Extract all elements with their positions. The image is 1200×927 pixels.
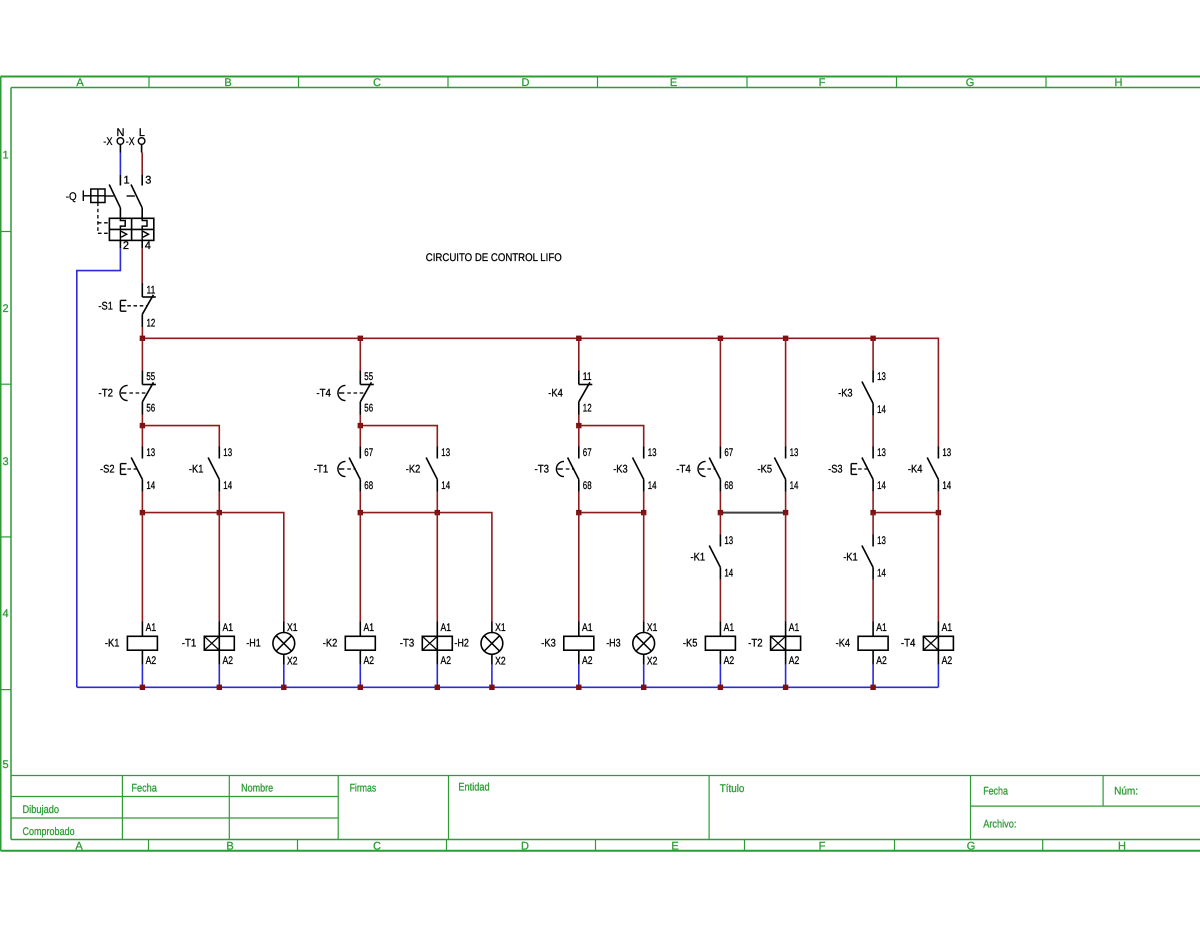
rail group4 (dark) [720, 512, 785, 514]
svg-text:-Q: -Q [66, 191, 77, 203]
svg-text:X2: X2 [647, 656, 658, 668]
svg-text:56: 56 [146, 403, 155, 415]
svg-text:A2: A2 [942, 655, 953, 667]
timer coil -T3 [400, 622, 453, 668]
junction g2b [435, 510, 440, 515]
svg-text:Título: Título [720, 783, 745, 795]
wire -K3b to rail (red) [643, 492, 645, 513]
svg-text:B: B [224, 77, 231, 89]
junction neutral x643 [641, 685, 646, 690]
control bus (red) [142, 338, 938, 446]
svg-text:Comprobado: Comprobado [23, 826, 75, 838]
contactor coil -K1 [105, 622, 157, 668]
svg-text:13: 13 [648, 447, 657, 459]
terminal -X N [103, 127, 124, 153]
svg-text:-S2: -S2 [100, 463, 115, 475]
svg-text:A1: A1 [582, 622, 593, 634]
wire rail to -K1 coil (red) [141, 513, 143, 622]
svg-text:A1: A1 [146, 622, 157, 634]
svg-text:3: 3 [3, 456, 9, 468]
svg-text:A: A [75, 840, 83, 852]
wire N to breaker (blue) [119, 153, 121, 176]
relay contact -K1 (NO 13-14) c1 [691, 513, 734, 622]
relay contact -K3 (NO 13-14) [838, 371, 886, 417]
wire coil3 to neutral (blue) [283, 665, 285, 688]
lamp -H3 [606, 622, 657, 668]
junction bus x142 [140, 336, 145, 341]
svg-text:A1: A1 [364, 622, 375, 634]
svg-text:-K3: -K3 [838, 387, 853, 399]
svg-text:-K3: -K3 [613, 463, 628, 475]
wire rail to -K2 coil (red) [359, 513, 361, 622]
svg-text:13: 13 [146, 447, 155, 459]
pushbutton -S3 (NO 13-14) [828, 447, 886, 493]
wire coil2 to neutral (blue) [218, 665, 220, 688]
junction bus x360 [358, 336, 363, 341]
wire coil11 to neutral (blue) [872, 665, 874, 688]
wire bus to -K4a (red) [578, 338, 580, 370]
junction g1a [140, 510, 145, 515]
svg-text:-X: -X [126, 136, 135, 148]
svg-text:A1: A1 [223, 622, 234, 634]
svg-text:14: 14 [790, 480, 799, 492]
svg-text:H: H [1115, 77, 1123, 89]
svg-text:4: 4 [3, 608, 9, 620]
timer contact -T2 (NC 55-56) [99, 371, 156, 415]
wire bus to -K5 (red) [785, 338, 787, 446]
svg-text:X2: X2 [495, 656, 506, 668]
wire rail to -K3 coil (red) [578, 513, 580, 622]
svg-text:A2: A2 [364, 655, 375, 667]
wire L to breaker (red) [141, 153, 143, 176]
wire bus to -T4b (red) [719, 338, 721, 446]
circuit breaker -Q [66, 175, 154, 253]
svg-text:-T4: -T4 [901, 638, 916, 650]
svg-text:A1: A1 [441, 622, 452, 634]
svg-text:-K5: -K5 [683, 638, 698, 650]
junction neutral x360 [358, 685, 363, 690]
junction node1 [140, 423, 145, 428]
wire -K1b1 to rail (red) [218, 492, 220, 513]
neutral bus (blue) [77, 686, 939, 688]
relay contact -K5 (NO 13-14) [758, 447, 799, 493]
rail group1 (red) [142, 513, 283, 622]
svg-text:F: F [819, 77, 826, 89]
wire S1 to bus (red) [141, 327, 143, 338]
svg-text:-T4: -T4 [676, 463, 691, 475]
junction g2a [358, 510, 363, 515]
contactor coil -K2 [323, 622, 376, 668]
svg-text:13: 13 [223, 447, 232, 459]
node1 branch line (red) [142, 426, 219, 447]
svg-text:CIRCUITO DE CONTROL LIFO: CIRCUITO DE CONTROL LIFO [426, 252, 562, 264]
wire bus to -T2 (red) [141, 338, 143, 370]
svg-text:11: 11 [583, 371, 592, 383]
svg-text:L: L [139, 127, 145, 139]
rail group5 (red) [873, 512, 938, 514]
wire coil6 to neutral (blue) [491, 665, 493, 688]
svg-text:C: C [373, 77, 381, 89]
svg-text:A2: A2 [223, 655, 234, 667]
svg-text:X1: X1 [647, 622, 658, 634]
timer contact -T4 (NO 67-68) [676, 447, 733, 493]
svg-text:H: H [1118, 840, 1126, 852]
junction neutral x785 [783, 685, 788, 690]
svg-text:E: E [671, 840, 678, 852]
wire coil5 to neutral (blue) [436, 665, 438, 688]
junction neutral x578 [576, 685, 581, 690]
contactor coil -K3 [541, 622, 594, 668]
wire -T1 to rail (red) [359, 492, 361, 513]
junction bus x873 [870, 336, 875, 341]
svg-text:55: 55 [146, 371, 155, 383]
node3 branch line (red) [579, 426, 644, 447]
svg-text:C: C [373, 840, 381, 852]
svg-text:13: 13 [724, 535, 733, 547]
svg-text:14: 14 [724, 568, 733, 580]
relay contact -K1 (NO 13-14) b1 [189, 447, 232, 493]
svg-text:1: 1 [124, 175, 130, 187]
svg-text:D: D [521, 840, 529, 852]
svg-text:13: 13 [877, 535, 886, 547]
svg-text:X1: X1 [495, 622, 506, 634]
svg-text:2: 2 [123, 240, 129, 252]
svg-text:-K3: -K3 [541, 638, 556, 650]
svg-text:-T3: -T3 [400, 638, 415, 650]
title text [426, 252, 562, 264]
svg-text:13: 13 [942, 447, 951, 459]
svg-text:14: 14 [942, 480, 951, 492]
svg-text:-K4: -K4 [908, 463, 923, 475]
terminal -X L [126, 127, 145, 153]
svg-text:Nombre: Nombre [241, 783, 273, 795]
wire node1 to -S2 (red) [141, 426, 143, 447]
svg-text:2: 2 [3, 303, 9, 315]
svg-text:B: B [226, 840, 233, 852]
svg-text:Archivo:: Archivo: [983, 818, 1016, 830]
svg-text:-K5: -K5 [758, 463, 773, 475]
wire coil9 to neutral (blue) [719, 665, 721, 688]
rail group3 (red) [579, 512, 644, 514]
svg-text:Núm:: Núm: [1114, 786, 1138, 798]
junction bus x785 [783, 336, 788, 341]
wire node2 to -T1 (red) [359, 426, 361, 447]
wire -K5 to rail (red) [785, 492, 787, 513]
timer coil -T4 [901, 622, 954, 668]
wire L2 (red) [141, 248, 143, 283]
svg-text:67: 67 [724, 447, 733, 459]
svg-text:A1: A1 [724, 622, 735, 634]
wire rail to -H3 lamp (red) [643, 513, 645, 622]
svg-text:Firmas: Firmas [350, 783, 377, 795]
svg-text:-H3: -H3 [606, 638, 621, 650]
rail group2 (red) [360, 513, 492, 622]
junction g1b [217, 510, 222, 515]
wire coil12 to neutral (blue) [937, 665, 939, 688]
junction g4a [718, 510, 723, 515]
svg-text:A2: A2 [441, 655, 452, 667]
svg-text:55: 55 [364, 371, 373, 383]
contactor coil -K5 [683, 622, 736, 668]
timer coil -T2 [748, 622, 801, 668]
wire -S2 to rail (red) [141, 492, 143, 513]
junction neutral x873 [870, 685, 875, 690]
svg-text:-K1: -K1 [691, 552, 706, 564]
svg-text:-K1: -K1 [843, 552, 858, 564]
svg-text:N: N [117, 127, 125, 139]
svg-text:-K4: -K4 [548, 387, 563, 399]
junction neutral x283 [281, 685, 286, 690]
lamp -H1 [246, 622, 297, 668]
svg-text:-X: -X [103, 136, 113, 148]
svg-text:5: 5 [3, 759, 9, 771]
wire -K2 to rail (red) [436, 492, 438, 513]
svg-text:Dibujado: Dibujado [23, 804, 60, 816]
svg-text:-T1: -T1 [182, 638, 197, 650]
junction neutral x219 [217, 685, 222, 690]
svg-text:-H2: -H2 [454, 638, 469, 650]
svg-text:-T3: -T3 [535, 463, 550, 475]
junction node3 [576, 423, 581, 428]
svg-text:14: 14 [877, 404, 886, 416]
svg-text:-K1: -K1 [105, 638, 120, 650]
svg-text:14: 14 [441, 480, 450, 492]
svg-text:G: G [966, 77, 975, 89]
svg-text:11: 11 [147, 285, 156, 297]
wire bus to -K3a (red) [872, 338, 874, 370]
svg-text:Entidad: Entidad [458, 782, 489, 794]
svg-text:-T4: -T4 [316, 387, 331, 399]
svg-text:4: 4 [145, 240, 151, 252]
wire coil1 to neutral (blue) [141, 665, 143, 688]
svg-text:-T2: -T2 [748, 638, 763, 650]
junction neutral x142 [140, 685, 145, 690]
svg-text:Fecha: Fecha [983, 786, 1008, 798]
svg-text:A2: A2 [876, 655, 887, 667]
wire neutral return (blue) [77, 248, 121, 687]
relay contact -K1 (NO 13-14) c2 [843, 513, 886, 622]
svg-text:-K1: -K1 [189, 463, 204, 475]
svg-text:14: 14 [146, 480, 155, 492]
junction bus x578 [576, 336, 581, 341]
junction g4b [783, 510, 788, 515]
svg-text:X1: X1 [287, 622, 298, 634]
svg-text:-S3: -S3 [828, 463, 843, 475]
svg-text:-T2: -T2 [99, 387, 114, 399]
svg-text:-T1: -T1 [314, 463, 329, 475]
junction g3a [576, 510, 581, 515]
junction node2 [358, 423, 363, 428]
svg-text:A: A [76, 77, 84, 89]
svg-text:67: 67 [364, 447, 373, 459]
svg-text:G: G [967, 840, 976, 852]
wire -S3 to rail (red) [872, 492, 874, 513]
svg-text:14: 14 [877, 480, 886, 492]
svg-text:E: E [670, 77, 677, 89]
svg-text:F: F [819, 840, 826, 852]
wire -K4b to rail (red) [937, 492, 939, 513]
contactor coil -K4 [836, 622, 889, 668]
svg-text:3: 3 [145, 175, 151, 187]
svg-text:12: 12 [147, 318, 156, 330]
svg-text:-S1: -S1 [98, 300, 113, 312]
timer contact -T3 (NO 67-68) [535, 447, 592, 493]
svg-text:A1: A1 [876, 622, 887, 634]
timer contact -T1 (NO 67-68) [314, 447, 373, 493]
wire node3 to -T3 (red) [578, 426, 580, 447]
wire -T3 to rail (red) [578, 492, 580, 513]
wire coil4 to neutral (blue) [359, 665, 361, 688]
svg-text:A1: A1 [789, 622, 800, 634]
wire bus to -T4a (red) [359, 338, 361, 370]
svg-text:14: 14 [648, 480, 657, 492]
junction neutral x720 [718, 685, 723, 690]
svg-text:13: 13 [877, 371, 886, 383]
relay contact -K4 (NO 13-14) b [908, 447, 951, 493]
relay contact -K4 (NC 11-12) [548, 371, 592, 415]
svg-text:68: 68 [364, 480, 373, 492]
svg-text:12: 12 [583, 403, 592, 415]
timer coil -T1 [182, 622, 235, 668]
wire -K3a to -S3 (red) [872, 416, 874, 447]
svg-text:14: 14 [877, 568, 886, 580]
svg-text:-K2: -K2 [323, 638, 338, 650]
junction g5b [936, 510, 941, 515]
svg-text:D: D [522, 77, 530, 89]
relay contact -K2 (NO 13-14) [406, 447, 450, 493]
junction g5a [870, 510, 875, 515]
svg-text:A1: A1 [942, 622, 953, 634]
svg-text:13: 13 [877, 447, 886, 459]
svg-text:A2: A2 [146, 655, 157, 667]
svg-text:A2: A2 [789, 655, 800, 667]
svg-text:68: 68 [724, 480, 733, 492]
node2 branch line (red) [360, 426, 437, 447]
wire rail to -T3 coil (red) [436, 513, 438, 622]
junction g3b [641, 510, 646, 515]
svg-text:X2: X2 [287, 656, 298, 668]
wire rail to -T2 coil (red) [785, 513, 787, 622]
junction bus x720 [718, 336, 723, 341]
svg-text:14: 14 [223, 480, 232, 492]
wire -T4b to rail (red) [719, 492, 721, 513]
wire rail to -T4 coil (red) [937, 513, 939, 622]
wire rail to -T1 coil (red) [218, 513, 220, 622]
svg-text:13: 13 [790, 447, 799, 459]
svg-text:A2: A2 [724, 655, 735, 667]
junction neutral x491 [489, 685, 494, 690]
timer contact -T4 (NC 55-56) [316, 371, 373, 415]
lamp -H2 [454, 622, 505, 668]
wire -K4a to node3 (red) [578, 415, 580, 426]
junction neutral x437 [435, 685, 440, 690]
svg-text:56: 56 [364, 403, 373, 415]
svg-text:-H1: -H1 [246, 638, 260, 650]
svg-text:1: 1 [3, 150, 9, 162]
svg-text:Fecha: Fecha [131, 783, 157, 795]
pushbutton -S2 (NO 13-14) [100, 447, 155, 493]
relay contact -K3 (NO 13-14) b [613, 447, 656, 493]
svg-text:-K2: -K2 [406, 463, 421, 475]
svg-text:13: 13 [441, 447, 450, 459]
wire coil10 to neutral (blue) [785, 665, 787, 688]
pushbutton -S1 (NC 11-12) [98, 283, 155, 330]
svg-text:67: 67 [583, 447, 592, 459]
svg-text:A2: A2 [582, 655, 593, 667]
wire -T2 to node1 (red) [141, 415, 143, 426]
svg-text:68: 68 [583, 480, 592, 492]
wire coil8 to neutral (blue) [643, 665, 645, 688]
wire coil7 to neutral (blue) [578, 665, 580, 688]
wire -T4a to node2 (red) [359, 415, 361, 426]
svg-text:-K4: -K4 [836, 638, 851, 650]
